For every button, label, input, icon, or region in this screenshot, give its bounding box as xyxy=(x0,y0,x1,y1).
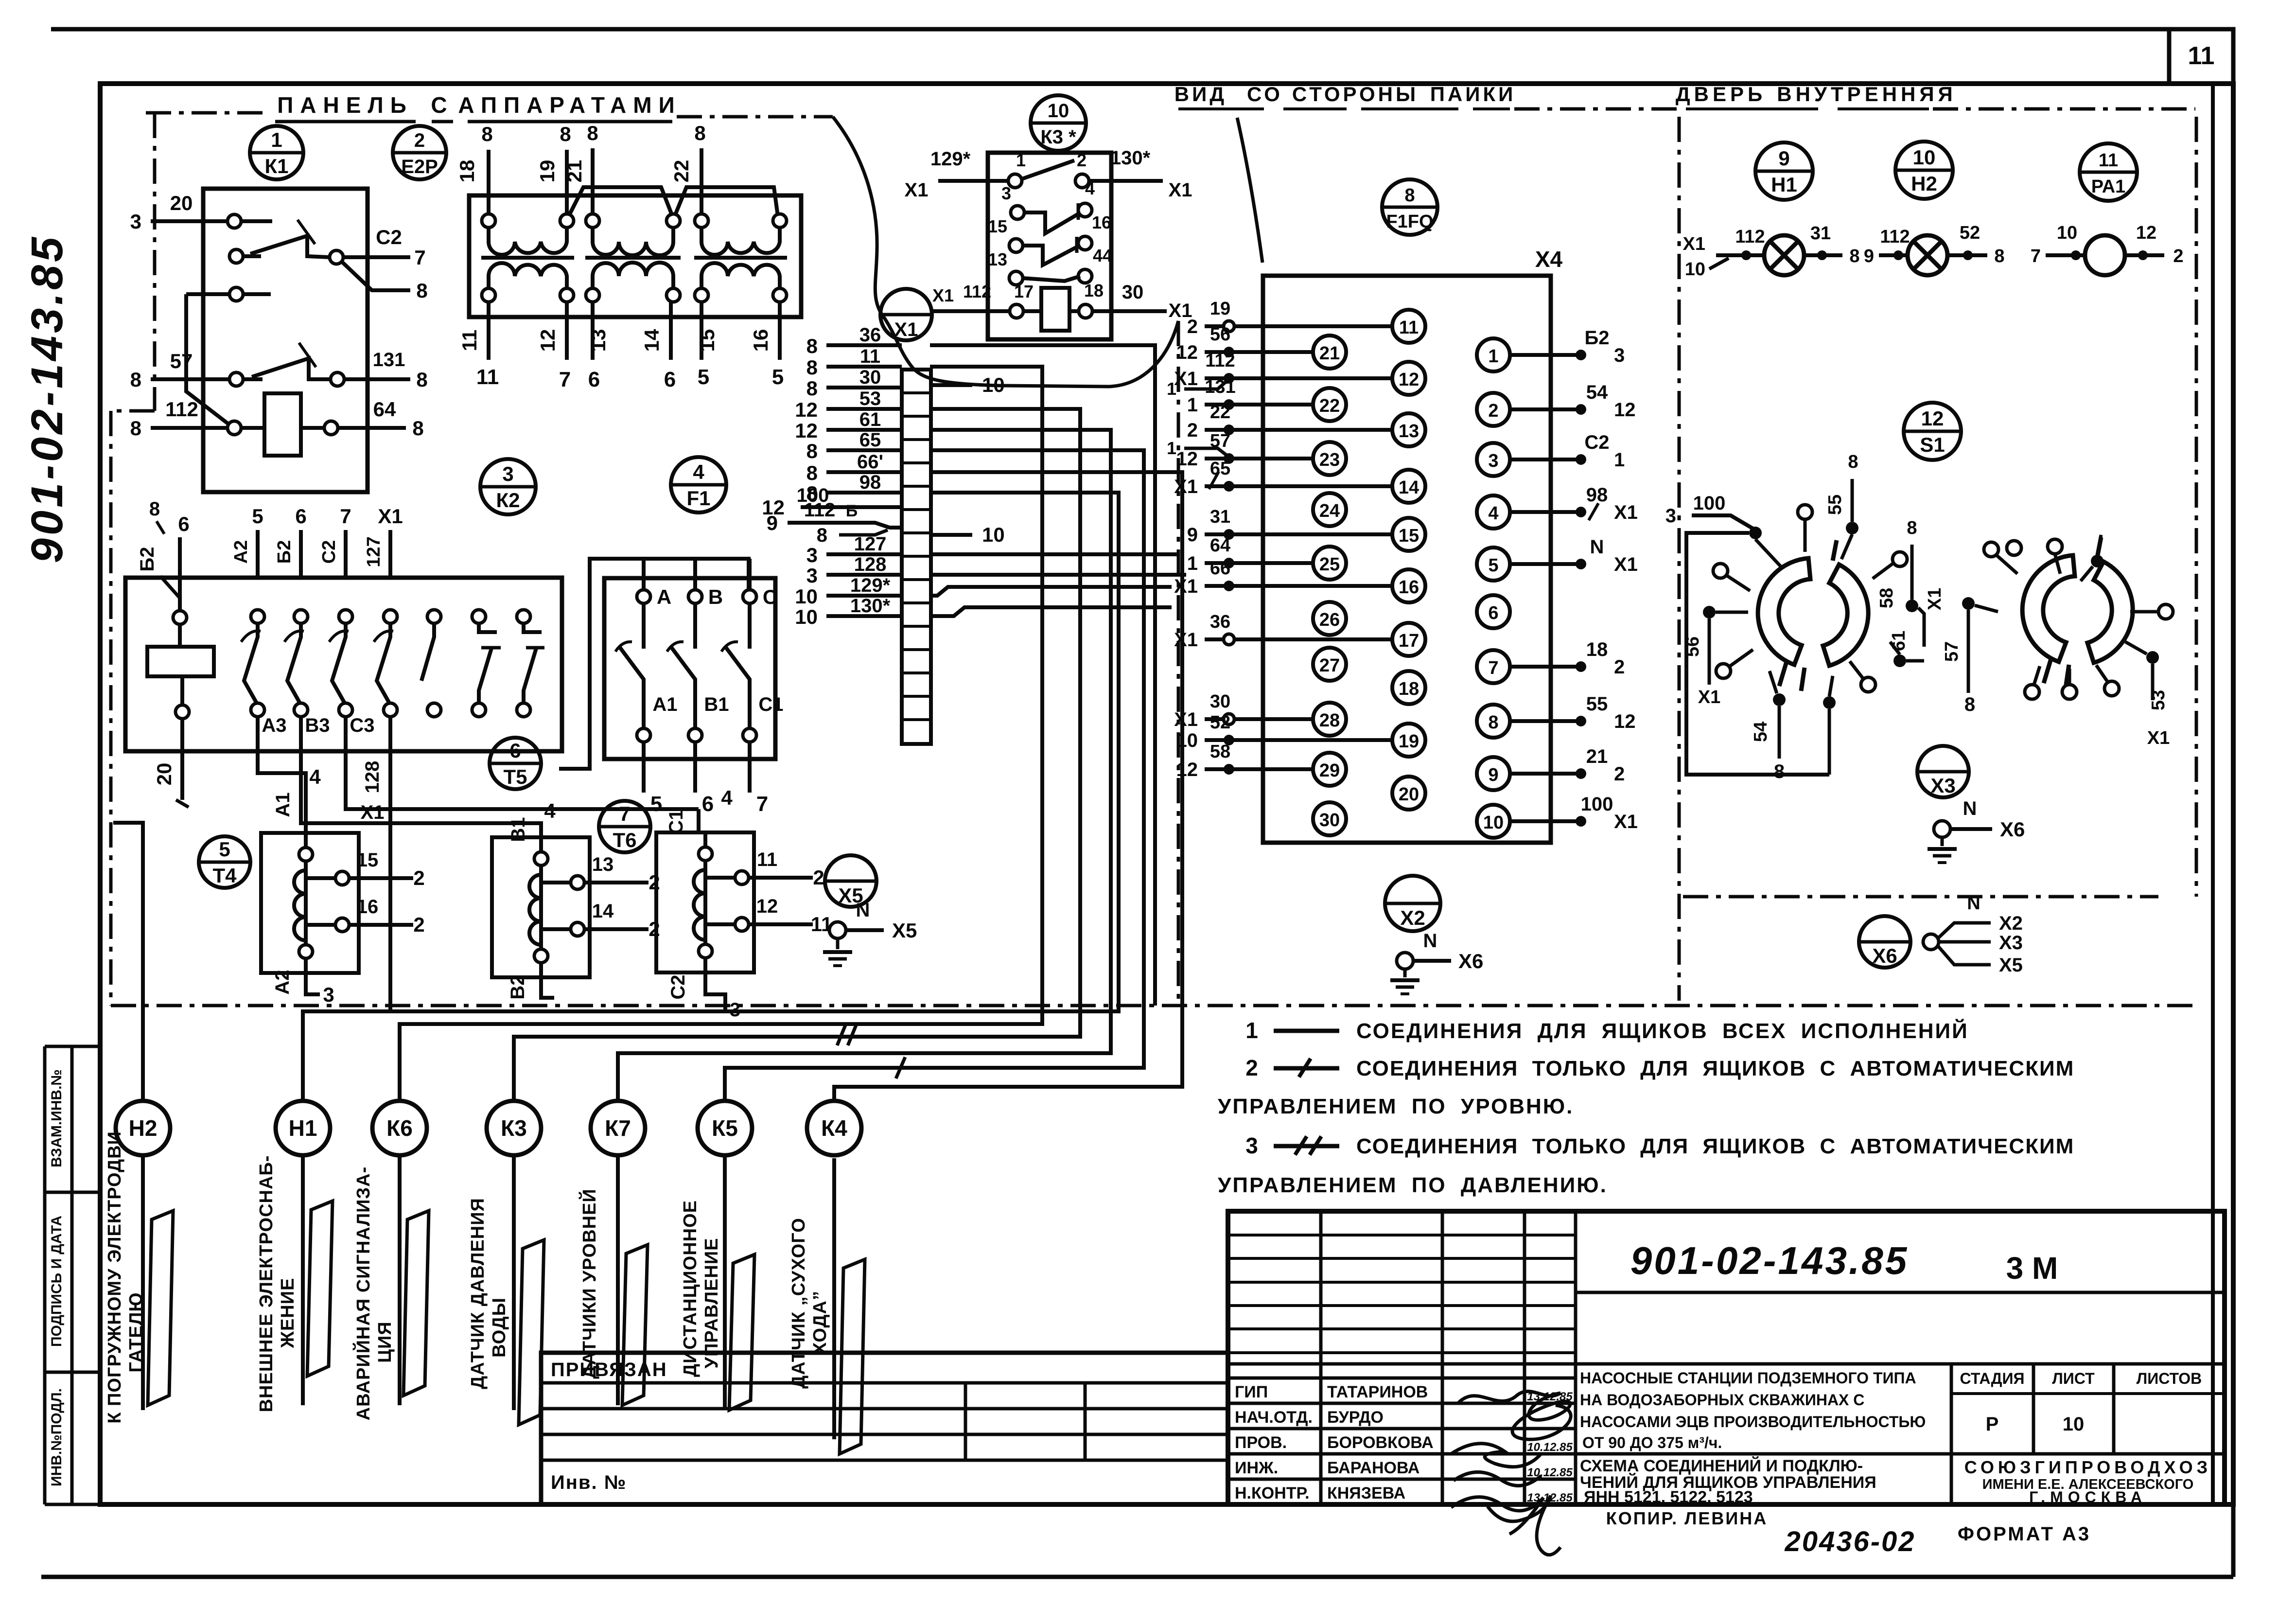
E2P lead 19 xyxy=(565,150,569,214)
svg-text:УПРАВЛЕНИЕМ ПО УРОВНЮ.: УПРАВЛЕНИЕМ ПО УРОВНЮ. xyxy=(1218,1095,1574,1118)
X4 wire 112 xyxy=(1205,376,1392,380)
svg-text:61: 61 xyxy=(1889,631,1909,651)
X4 pin 17 xyxy=(1392,623,1425,656)
terminal strip wire 66' xyxy=(826,470,902,474)
svg-text:11: 11 xyxy=(2188,42,2215,70)
svg-text:12: 12 xyxy=(795,398,818,421)
svg-text:17: 17 xyxy=(1014,282,1034,301)
wire mark // on K3 wire xyxy=(837,1024,846,1045)
svg-text:30: 30 xyxy=(859,367,881,388)
E2P bottom lead 12 xyxy=(565,302,569,360)
X4 pin 9 xyxy=(1477,757,1510,790)
svg-text:44: 44 xyxy=(1093,246,1112,265)
X4 pin 25 xyxy=(1313,547,1346,580)
X4 wire 19 xyxy=(1205,324,1392,328)
K2 pole 1 А2 xyxy=(256,530,260,578)
svg-text:Х2: Х2 xyxy=(1999,913,2023,934)
inner right margin line xyxy=(2211,84,2215,1504)
S1 left pin 54 8 xyxy=(1773,693,1786,706)
relay K3 designator circle xyxy=(1031,95,1086,151)
door section dash-dot left vertical xyxy=(1678,117,1681,1001)
X4 wire 131 xyxy=(1205,403,1313,406)
S1 right pin X1 53 xyxy=(2146,651,2159,664)
callout circle К3 xyxy=(487,1101,541,1155)
callout circle Н1 xyxy=(276,1101,330,1155)
T5 winding xyxy=(539,837,543,970)
sheet number box 11 xyxy=(2169,29,2233,84)
svg-text:8: 8 xyxy=(817,525,827,546)
wire K2 pole1 to T4 xyxy=(258,717,306,833)
svg-text:Х5: Х5 xyxy=(1999,954,2023,976)
svg-text:10: 10 xyxy=(2063,1414,2085,1435)
svg-text:2: 2 xyxy=(1488,401,1498,421)
X4 pin 11 xyxy=(1392,310,1425,343)
svg-text:20436-02: 20436-02 xyxy=(1784,1526,1915,1557)
svg-text:2: 2 xyxy=(1245,1055,1258,1080)
svg-text:52: 52 xyxy=(1960,223,1980,243)
svg-text:20: 20 xyxy=(153,763,175,786)
T6 top lead C1 4 xyxy=(697,809,701,832)
svg-text:8: 8 xyxy=(806,377,818,400)
svg-text:1: 1 xyxy=(1187,553,1198,574)
svg-text:S1: S1 xyxy=(1920,433,1945,456)
svg-text:12: 12 xyxy=(1921,407,1944,430)
terminal strip wire 112 b xyxy=(788,523,902,528)
svg-text:65: 65 xyxy=(1210,459,1230,479)
svg-text:7: 7 xyxy=(756,792,768,816)
svg-text:30: 30 xyxy=(1122,282,1144,303)
svg-text:К3: К3 xyxy=(501,1115,527,1141)
K2 auxiliary contact pole 7 NC xyxy=(517,610,530,623)
X4 pin 18 xyxy=(1392,671,1425,704)
svg-text:100: 100 xyxy=(1581,794,1613,815)
T4 bottom lead A2 3 xyxy=(306,965,320,994)
S1 left pin 58 xyxy=(1893,552,1907,566)
X4 pin 23 xyxy=(1313,442,1346,475)
svg-text:АВАРИЙНАЯ СИГНАЛИЗА-: АВАРИЙНАЯ СИГНАЛИЗА- xyxy=(352,1166,374,1421)
X4 pin 12 xyxy=(1392,362,1425,395)
wire net 53 to K3 xyxy=(514,409,1080,1103)
svg-text:Н.КОНТР.: Н.КОНТР. xyxy=(1235,1484,1310,1502)
svg-text:X1: X1 xyxy=(1614,811,1638,832)
svg-text:18: 18 xyxy=(1399,679,1419,699)
svg-text:56: 56 xyxy=(1210,324,1230,345)
svg-text:2: 2 xyxy=(1187,316,1198,337)
X4 wire 36 xyxy=(1205,637,1392,641)
E2P transformer unit 2 windings xyxy=(586,214,599,228)
svg-text:В2: В2 xyxy=(507,974,528,999)
svg-text:12: 12 xyxy=(1176,448,1198,470)
svg-text:Р: Р xyxy=(1986,1414,1999,1435)
K3 wire 130* X1 xyxy=(1089,179,1163,183)
svg-text:19: 19 xyxy=(1399,731,1419,752)
S1 left pin 56 X1 xyxy=(1703,606,1716,618)
E2P bottom lead 11 xyxy=(487,302,491,360)
svg-text:X1: X1 xyxy=(1683,234,1705,254)
svg-text:Н2: Н2 xyxy=(129,1115,158,1141)
title block signatures xyxy=(1458,1391,1571,1439)
S1 right pin NE xyxy=(2091,555,2103,567)
svg-text:X1: X1 xyxy=(1614,554,1638,575)
svg-text:С: С xyxy=(431,92,454,118)
svg-text:14: 14 xyxy=(1399,477,1419,498)
svg-text:98: 98 xyxy=(1586,484,1608,506)
svg-text:11: 11 xyxy=(476,365,499,389)
X4 pin 19 xyxy=(1392,724,1425,757)
K2 auxiliary contact pole 5 xyxy=(427,610,441,623)
X4 wire 58 xyxy=(1205,767,1313,771)
svg-text:С2: С2 xyxy=(1584,432,1609,453)
wire net 11 to K6 xyxy=(400,367,1042,1103)
svg-text:58: 58 xyxy=(1876,588,1897,608)
sheet top border line xyxy=(51,27,2169,32)
svg-text:УПРАВЛЕНИЕМ ПО ДАВЛЕНИЮ.: УПРАВЛЕНИЕМ ПО ДАВЛЕНИЮ. xyxy=(1218,1173,1608,1197)
cable line K4 xyxy=(832,1158,836,1439)
svg-text:7: 7 xyxy=(2031,246,2041,266)
svg-text:9: 9 xyxy=(1187,524,1198,546)
cable symbol 5 xyxy=(622,1245,648,1405)
svg-text:1: 1 xyxy=(1167,379,1176,399)
svg-text:Х2: Х2 xyxy=(1400,906,1425,929)
svg-text:12: 12 xyxy=(795,419,818,442)
T5 bottom lead B2 xyxy=(541,970,554,998)
S1 right pin E xyxy=(2158,604,2173,619)
T6 winding xyxy=(703,832,707,965)
svg-text:СОЕДИНЕНИЯ ТОЛЬКО ДЛЯ ЯЩИКО: СОЕДИНЕНИЯ ТОЛЬКО ДЛЯ ЯЩИКОВ С АВТОМАТИЧ… xyxy=(1356,1134,2074,1158)
svg-text:8: 8 xyxy=(1404,185,1415,206)
svg-text:128: 128 xyxy=(362,761,383,794)
svg-text:20: 20 xyxy=(1399,784,1419,805)
T6 tap 11 xyxy=(735,871,749,884)
X4 wire 55 12 xyxy=(1510,719,1581,723)
terminal strip wire 100 xyxy=(801,505,902,509)
svg-text:Н1: Н1 xyxy=(1771,173,1797,196)
svg-text:12: 12 xyxy=(1176,759,1198,780)
svg-text:Х3: Х3 xyxy=(1930,774,1955,797)
K1 NC contact row 57-131 xyxy=(151,377,229,381)
svg-text:1: 1 xyxy=(1167,438,1176,458)
svg-text:СТАДИЯ: СТАДИЯ xyxy=(1960,1370,2025,1387)
svg-text:12: 12 xyxy=(1399,370,1419,390)
X4 wire 54 12 xyxy=(1510,407,1581,411)
rotary switch S1 left xyxy=(1758,558,1810,665)
svg-text:7: 7 xyxy=(414,246,425,269)
svg-text:66: 66 xyxy=(1210,558,1230,579)
svg-text:1: 1 xyxy=(1488,346,1498,367)
rotary switch S1 right xyxy=(2022,555,2075,662)
svg-text:3: 3 xyxy=(1488,451,1498,471)
svg-text:3: 3 xyxy=(323,983,334,1006)
connector X2 designator circle xyxy=(1385,876,1440,931)
cable symbol 1 xyxy=(148,1211,173,1405)
svg-text:3: 3 xyxy=(1614,345,1625,366)
callout circle К5 xyxy=(698,1101,752,1155)
svg-text:3: 3 xyxy=(502,462,513,485)
svg-text:7: 7 xyxy=(1488,658,1498,678)
relay K1 body xyxy=(203,189,368,492)
svg-text:14: 14 xyxy=(592,901,614,922)
E2P bottom lead 16 xyxy=(778,302,782,360)
title block grid xyxy=(1319,1211,1323,1504)
svg-text:СТОРОНЫ: СТОРОНЫ xyxy=(1292,83,1419,106)
S1 right pins bottom xyxy=(2025,685,2039,699)
svg-text:2: 2 xyxy=(1187,420,1198,441)
svg-text:С1: С1 xyxy=(758,694,783,715)
svg-text:10: 10 xyxy=(1685,259,1705,280)
svg-text:НАЧ.ОТД.: НАЧ.ОТД. xyxy=(1235,1408,1313,1427)
svg-text:ПАЙКИ: ПАЙКИ xyxy=(1430,82,1516,106)
relay K1 designator circle xyxy=(250,126,303,179)
contactor K2 designator circle xyxy=(480,459,536,514)
svg-text:ФОРМАТ А3: ФОРМАТ А3 xyxy=(1958,1523,2091,1545)
X4 wire Б2 3 xyxy=(1510,353,1581,357)
X4 pin 3 xyxy=(1477,443,1510,476)
T5 tap 13 xyxy=(571,876,584,889)
transformer T6 designator circle xyxy=(599,801,650,852)
svg-text:15: 15 xyxy=(1399,526,1419,546)
svg-text:N: N xyxy=(1963,798,1977,819)
svg-text:С3: С3 xyxy=(350,715,374,736)
svg-text:Б2: Б2 xyxy=(1585,327,1610,349)
svg-text:А3: А3 xyxy=(262,715,286,736)
K1 wire 112 row xyxy=(151,426,228,430)
left margin column lines xyxy=(43,1046,47,1504)
cable symbol 6 xyxy=(729,1255,754,1410)
svg-text:9: 9 xyxy=(1778,147,1789,170)
svg-text:Инв. №: Инв. № xyxy=(551,1472,627,1493)
svg-text:С2: С2 xyxy=(319,540,339,564)
X4 pin 10 xyxy=(1477,805,1510,838)
X4 pin 15 xyxy=(1392,518,1425,551)
svg-text:8: 8 xyxy=(806,356,818,379)
svg-text:7: 7 xyxy=(340,505,351,528)
svg-text:3 М: 3 М xyxy=(2006,1251,2058,1286)
svg-text:11: 11 xyxy=(860,346,880,367)
connector X4 body xyxy=(1263,276,1551,843)
svg-text:ГАТЕЛЮ: ГАТЕЛЮ xyxy=(126,1292,146,1372)
svg-text:2: 2 xyxy=(1614,763,1625,785)
svg-text:30: 30 xyxy=(1210,691,1230,712)
E2P lead 18 xyxy=(487,150,491,214)
svg-text:6: 6 xyxy=(702,792,714,816)
svg-text:9: 9 xyxy=(1488,765,1498,785)
svg-text:8: 8 xyxy=(412,417,423,440)
svg-text:112: 112 xyxy=(165,398,198,421)
X4 pin 16 xyxy=(1392,569,1425,602)
svg-text:19: 19 xyxy=(1210,299,1230,319)
X4 wire 100 X1 xyxy=(1510,819,1581,823)
terminal strip stub 8 xyxy=(839,530,888,535)
wire mark / on K5 wire xyxy=(896,1057,905,1078)
X4 pin 13 xyxy=(1392,413,1425,446)
svg-text:СО: СО xyxy=(1247,83,1283,106)
K1 wire to 8 xyxy=(343,263,410,290)
svg-text:130*: 130* xyxy=(850,595,891,617)
svg-text:23: 23 xyxy=(1319,450,1340,470)
svg-text:X1: X1 xyxy=(361,802,385,823)
cable line H1 xyxy=(301,1155,305,1405)
E2P bottom lead 13 xyxy=(591,302,595,360)
svg-text:5: 5 xyxy=(650,792,662,816)
door section dash-dot right vertical xyxy=(2195,117,2198,897)
T6 bottom lead C2 3 xyxy=(705,965,725,1010)
svg-text:БАРАНОВА: БАРАНОВА xyxy=(1327,1459,1420,1477)
K1 pin 64 xyxy=(324,421,338,435)
middle section dash-dot left vertical xyxy=(1177,321,1180,1006)
cable symbol 7 xyxy=(840,1259,865,1454)
svg-text:3: 3 xyxy=(1001,183,1011,203)
svg-text:В3: В3 xyxy=(305,715,330,736)
svg-text:8: 8 xyxy=(416,368,427,391)
contactor K2 body xyxy=(125,578,562,751)
svg-text:К1: К1 xyxy=(265,155,289,177)
svg-text:36: 36 xyxy=(859,324,881,346)
svg-text:Б2: Б2 xyxy=(137,547,158,572)
svg-text:Б2: Б2 xyxy=(274,540,295,564)
E2P transformer unit 1 windings xyxy=(482,214,495,228)
svg-text:X1: X1 xyxy=(1614,502,1638,523)
svg-text:N: N xyxy=(856,900,870,921)
svg-text:2: 2 xyxy=(414,130,425,151)
svg-text:ХОДА”: ХОДА” xyxy=(810,1290,830,1355)
svg-text:21: 21 xyxy=(563,160,586,183)
S1 right pins top xyxy=(1984,542,1998,557)
svg-text:1: 1 xyxy=(271,128,282,151)
svg-text:10: 10 xyxy=(1483,813,1504,833)
svg-text:15: 15 xyxy=(696,329,719,352)
svg-text:6: 6 xyxy=(664,368,676,391)
svg-text:11: 11 xyxy=(2099,150,2118,171)
svg-text:8: 8 xyxy=(130,417,141,440)
transformer T4 designator circle xyxy=(199,836,250,888)
cable line K6 xyxy=(398,1155,402,1405)
svg-text:ИНЖ.: ИНЖ. xyxy=(1235,1459,1278,1477)
svg-text:КНЯЗЕВА: КНЯЗЕВА xyxy=(1327,1484,1405,1502)
svg-text:К5: К5 xyxy=(712,1115,738,1141)
panel boundary dash-dot top left xyxy=(146,111,270,115)
X4 wire С2 1 xyxy=(1510,458,1581,461)
svg-text:112: 112 xyxy=(1735,227,1765,247)
svg-text:X1: X1 xyxy=(1169,179,1192,201)
terminal strip wire 130* xyxy=(826,614,902,618)
svg-text:11: 11 xyxy=(1399,318,1419,338)
svg-text:1: 1 xyxy=(1016,150,1026,170)
svg-text:10: 10 xyxy=(2057,223,2077,243)
svg-text:14: 14 xyxy=(640,329,663,352)
X4 pin 2 xyxy=(1477,393,1510,426)
svg-text:28: 28 xyxy=(1319,710,1340,731)
svg-text:13.12.85: 13.12.85 xyxy=(1527,1390,1573,1403)
wire 128 extension xyxy=(931,573,1186,577)
callout circle К6 xyxy=(372,1101,427,1155)
svg-text:ТАТАРИНОВ: ТАТАРИНОВ xyxy=(1327,1383,1428,1401)
svg-text:X1: X1 xyxy=(1925,588,1945,610)
svg-text:53: 53 xyxy=(2148,690,2169,710)
E2P bottom lead 14 xyxy=(669,302,673,360)
K1 wire 64 8 xyxy=(338,426,406,430)
svg-text:К4: К4 xyxy=(821,1115,847,1141)
svg-text:127: 127 xyxy=(854,533,887,555)
terminal strip wire 98 xyxy=(826,491,902,495)
K2 pole 3 С2 xyxy=(344,530,348,578)
svg-text:22: 22 xyxy=(670,160,693,183)
svg-text:11: 11 xyxy=(458,330,481,351)
svg-text:5: 5 xyxy=(219,838,230,861)
svg-text:8: 8 xyxy=(1848,452,1858,472)
svg-text:57: 57 xyxy=(170,350,193,372)
S1 left pin SW xyxy=(1716,664,1731,678)
svg-text:4: 4 xyxy=(309,765,321,788)
cable symbol 2 xyxy=(307,1201,333,1376)
relay K3 body xyxy=(988,153,1111,339)
svg-text:С2: С2 xyxy=(667,974,689,999)
svg-text:8: 8 xyxy=(149,498,160,520)
svg-text:6: 6 xyxy=(509,739,521,762)
svg-text:ОТ 90 ДО 375 м³/ч.: ОТ 90 ДО 375 м³/ч. xyxy=(1582,1434,1722,1451)
svg-text:ДАТЧИК ДАВЛЕНИЯ: ДАТЧИК ДАВЛЕНИЯ xyxy=(468,1198,488,1389)
svg-text:4: 4 xyxy=(1488,503,1498,524)
svg-text:55: 55 xyxy=(1825,495,1845,515)
svg-text:С1: С1 xyxy=(666,809,687,834)
svg-text:13: 13 xyxy=(988,249,1007,269)
S1 left wire loop xyxy=(1686,533,1829,775)
svg-text:7: 7 xyxy=(619,802,630,825)
svg-text:ЛИСТ: ЛИСТ xyxy=(2052,1370,2095,1387)
svg-text:129*: 129* xyxy=(930,148,971,170)
svg-text:64: 64 xyxy=(1210,535,1230,556)
svg-text:7: 7 xyxy=(559,368,571,391)
svg-text:ПРОВ.: ПРОВ. xyxy=(1235,1433,1287,1452)
F1 pole А xyxy=(637,590,650,603)
svg-text:8: 8 xyxy=(806,440,818,462)
svg-text:54: 54 xyxy=(1751,722,1771,742)
lamp H2 designator circle xyxy=(1895,141,1953,199)
X4 pin 1 xyxy=(1477,338,1510,371)
svg-text:6: 6 xyxy=(295,505,306,528)
X4 pin 29 xyxy=(1313,753,1346,786)
terminal strip output 10 upper xyxy=(931,383,972,387)
svg-text:2: 2 xyxy=(1077,150,1087,170)
svg-text:18: 18 xyxy=(456,160,478,183)
svg-text:СОЕДИНЕНИЯ ТОЛЬКО ДЛЯ ЯЩИКО: СОЕДИНЕНИЯ ТОЛЬКО ДЛЯ ЯЩИКОВ С АВТОМАТИЧ… xyxy=(1356,1057,2074,1080)
svg-text:А: А xyxy=(657,585,671,608)
svg-text:N: N xyxy=(1423,930,1437,952)
wire 129* extension xyxy=(931,587,1172,596)
svg-text:ДВЕРЬ: ДВЕРЬ xyxy=(1676,83,1766,106)
svg-text:X1: X1 xyxy=(1174,368,1198,389)
svg-text:8: 8 xyxy=(1774,761,1785,782)
svg-text:25: 25 xyxy=(1319,554,1340,575)
S1 left pin X1 61 xyxy=(1906,600,1918,612)
svg-text:27: 27 xyxy=(1319,655,1340,676)
T4 winding xyxy=(304,833,308,965)
svg-text:12: 12 xyxy=(1614,399,1636,421)
connector X3 designator circle xyxy=(1917,746,1969,797)
svg-text:ВНЕШНЕЕ ЭЛЕКТРОСНАБ-: ВНЕШНЕЕ ЭЛЕКТРОСНАБ- xyxy=(256,1155,277,1413)
middle section dash-dot to door section xyxy=(1514,107,1678,111)
svg-text:15: 15 xyxy=(988,216,1007,236)
K3 contact pins 15 16 xyxy=(1009,239,1023,252)
svg-text:Т6: Т6 xyxy=(613,829,636,851)
terminal strip wire 36 xyxy=(826,343,902,347)
X6 fan out to X2 X3 X5 xyxy=(1923,934,1939,950)
K1 pin C2 xyxy=(330,250,343,264)
X4 wire N X1 xyxy=(1510,562,1581,566)
svg-text:13: 13 xyxy=(1399,421,1419,442)
svg-text:31: 31 xyxy=(1810,223,1831,244)
svg-text:Х6: Х6 xyxy=(1458,950,1483,972)
bottom boundary dash-dot line xyxy=(111,1004,2196,1007)
